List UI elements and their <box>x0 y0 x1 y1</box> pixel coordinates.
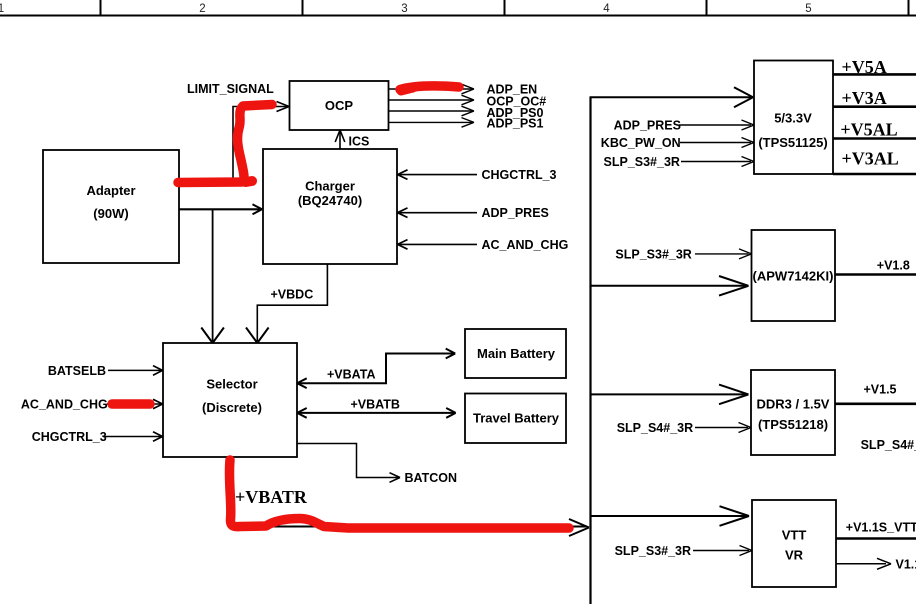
svg-text:+V5A: +V5A <box>842 57 887 77</box>
svg-text:+VBATA: +VBATA <box>327 368 376 382</box>
svg-text:VTT: VTT <box>782 528 807 543</box>
svg-text:ADP_PRES: ADP_PRES <box>482 206 549 220</box>
wire rail +V3AL <box>833 173 916 176</box>
ruler zone numbers <box>0 3 812 15</box>
svg-text:(BQ24740): (BQ24740) <box>298 193 362 208</box>
svg-text:Charger: Charger <box>305 179 355 194</box>
svg-text:+V1.8: +V1.8 <box>877 259 910 273</box>
svg-text:2: 2 <box>199 3 205 15</box>
arrow AC_AND_CHG <box>398 240 408 250</box>
arrow SLP_S4#_3R DDR3 <box>739 423 752 433</box>
arrow SLP_S3#_3R 5/3.3V <box>742 157 755 167</box>
svg-text:SLP_S4#_3R: SLP_S4#_3R <box>861 438 916 452</box>
svg-text:SLP_S3#_3R: SLP_S3#_3R <box>615 247 691 261</box>
arrow OCP_OC# <box>462 95 475 105</box>
wire +VBATA Selector to Main Battery <box>298 354 454 384</box>
svg-text:1: 1 <box>0 3 4 15</box>
svg-text:OCP: OCP <box>325 98 354 113</box>
svg-text:BATSELB: BATSELB <box>48 364 106 378</box>
wire +VBDC from Charger bottom <box>257 264 327 341</box>
red marker highlight ADP_EN <box>400 86 459 90</box>
wire LIMIT_SIGNAL from Adapter to OCP <box>179 107 287 183</box>
wire rail +V5AL <box>833 137 916 140</box>
svg-text:+VBDC: +VBDC <box>271 288 314 302</box>
svg-text:(Discrete): (Discrete) <box>202 400 262 415</box>
wire OCP output ADP_PS0 <box>389 110 474 112</box>
wire +VBATR Selector bottom to right bus <box>230 457 587 527</box>
wire rail +V1.1S_VTT <box>836 537 916 540</box>
arrow into Charger left <box>253 204 263 214</box>
wire Adapter to Charger <box>179 208 261 210</box>
wire BATCON from Selector <box>297 444 398 478</box>
arrow big into 5/3.3V <box>734 87 753 107</box>
arrow CHGCTRL_3 <box>398 170 408 180</box>
svg-text:LIMIT_SIGNAL: LIMIT_SIGNAL <box>187 82 274 96</box>
arrow ADP_PRES <box>398 208 408 218</box>
svg-text:Travel Battery: Travel Battery <box>473 411 560 426</box>
svg-text:ADP_PRES: ADP_PRES <box>614 119 681 133</box>
block Main Battery <box>465 329 566 378</box>
svg-text:+V3AL: +V3AL <box>842 149 899 169</box>
block OCP <box>290 81 389 130</box>
red marker highlight +VBATR <box>229 460 569 528</box>
svg-text:(90W): (90W) <box>93 206 128 221</box>
red marker blob on LIMIT bend <box>246 181 252 182</box>
wire bus branch to DDR3 <box>591 393 748 395</box>
arrow big into DDR3 <box>719 385 749 405</box>
border ruler line <box>0 15 916 17</box>
arrow +VBATR into bus <box>569 519 589 536</box>
wire SLP_S3#_3R into 5/3.3V <box>681 161 751 163</box>
svg-text:ICS: ICS <box>349 135 370 149</box>
arrow +VBATA into Main Battery <box>446 349 456 359</box>
arrow KBC_PW_ON <box>742 138 755 148</box>
svg-text:5: 5 <box>805 3 811 15</box>
block VTT VR <box>752 500 836 587</box>
wire ICS Charger to OCP <box>339 132 341 150</box>
wire ADP_PRES into Charger <box>399 212 477 214</box>
svg-text:SLP_S3#_3R: SLP_S3#_3R <box>615 544 691 558</box>
arrow BATCON <box>390 473 401 483</box>
arrow big into APW7142KI <box>719 276 749 296</box>
arrow big into VTT <box>720 506 750 526</box>
wire rail +V1.8 <box>835 273 916 276</box>
arrow into OCP left <box>277 102 290 112</box>
block Selector (Discrete) <box>163 343 297 457</box>
wire OCP output OCP_OC# <box>389 99 474 101</box>
wire OCP output ADP_PS1 <box>389 121 474 123</box>
svg-text:CHGCTRL_3: CHGCTRL_3 <box>482 168 557 182</box>
svg-text:AC_AND_CHG: AC_AND_CHG <box>482 238 569 252</box>
wire +VBATB Selector to Travel Battery <box>298 412 455 414</box>
svg-text:DDR3 / 1.5V: DDR3 / 1.5V <box>757 397 830 412</box>
svg-text:4: 4 <box>603 3 610 15</box>
arrow +VBATA into Selector <box>297 378 307 388</box>
wire bus branch to VTT <box>591 515 748 517</box>
arrow V1.1S <box>877 558 891 569</box>
wire OCP output ADP_EN <box>389 88 474 90</box>
arrow ADP_PS1 <box>462 118 475 128</box>
block Charger (BQ24740) <box>263 149 397 264</box>
arrow into OCP bottom <box>335 130 345 142</box>
svg-text:SLP_S3#_3R: SLP_S3#_3R <box>604 155 680 169</box>
svg-text:3: 3 <box>401 3 407 15</box>
wire rail +V5A <box>833 73 916 76</box>
arrow into Selector top left <box>201 328 224 344</box>
block Adapter (90W) <box>43 150 179 263</box>
svg-text:+VBATB: +VBATB <box>351 397 400 411</box>
svg-text:Selector: Selector <box>206 377 257 392</box>
arrow SLP_S3#_3R VTT <box>740 546 753 556</box>
block 5/3.3V (TPS51125) <box>754 61 833 175</box>
svg-text:BATCON: BATCON <box>405 471 458 485</box>
svg-text:SLP_S4#_3R: SLP_S4#_3R <box>617 421 693 435</box>
arrow ADP_PS0 <box>462 106 475 116</box>
wire BATSELB into Selector <box>108 369 162 371</box>
wire AC_AND_CHG into Charger <box>399 243 477 245</box>
svg-text:+V3A: +V3A <box>842 88 887 108</box>
svg-text:Main Battery: Main Battery <box>477 346 556 361</box>
wire right power bus vertical <box>589 97 591 604</box>
arrow AC_AND_CHG selector <box>153 399 163 409</box>
wire CHGCTRL_3 into Charger <box>398 174 477 176</box>
arrow CHGCTRL_3 selector <box>153 432 163 442</box>
svg-text:AC_AND_CHG: AC_AND_CHG <box>21 397 108 411</box>
wire junction down to Selector <box>212 210 214 342</box>
wire KBC_PW_ON into 5/3.3V <box>680 142 751 144</box>
arrow ADP_EN <box>462 84 475 94</box>
wire V1.1S output with arrow <box>836 563 886 565</box>
svg-text:+VBATR: +VBATR <box>235 487 308 507</box>
block DDR3 / 1.5V (TPS51218) <box>751 370 835 455</box>
svg-text:+V1.1S_VTT: +V1.1S_VTT <box>846 521 916 535</box>
ruler tick marks <box>101 0 909 16</box>
svg-text:V1.1S_VTT: V1.1S_VTT <box>896 557 916 571</box>
wire CHGCTRL_3 into Selector <box>103 436 161 438</box>
svg-text:ADP_PS1: ADP_PS1 <box>487 117 544 131</box>
svg-text:CHGCTRL_3: CHGCTRL_3 <box>32 430 107 444</box>
arrow +VBATB into Selector <box>297 408 307 418</box>
svg-text:5/3.3V: 5/3.3V <box>774 111 812 126</box>
svg-text:+V1.5: +V1.5 <box>864 382 897 396</box>
svg-text:KBC_PW_ON: KBC_PW_ON <box>601 136 681 150</box>
wire bus branch to APW7142KI <box>591 285 748 287</box>
arrow BATSELB <box>153 366 163 376</box>
red marker highlight AC_AND_CHG <box>112 399 150 409</box>
arrow SLP_S3#_3R APW <box>739 249 752 259</box>
red marker highlight LIMIT_SIGNAL <box>178 105 272 183</box>
svg-text:Adapter: Adapter <box>86 183 135 198</box>
wire SLP_S4#_3R into DDR3 <box>695 427 748 429</box>
wire bus branch to 5/3.3V <box>590 96 752 98</box>
wire rail +V1.5 <box>835 402 916 405</box>
svg-text:(TPS51125): (TPS51125) <box>758 135 827 150</box>
arrow +VBATB into Travel Battery <box>446 408 456 418</box>
wire SLP_S3#_3R into VTT <box>693 550 749 552</box>
block (APW7142KI) <box>752 230 836 321</box>
block Travel Battery <box>465 394 566 444</box>
wire ADP_PRES into 5/3.3V <box>679 124 751 126</box>
svg-text:(APW7142KI): (APW7142KI) <box>753 269 834 284</box>
wire rail +V3A <box>833 105 916 108</box>
wire SLP_S3#_3R into APW7142KI <box>695 253 749 255</box>
arrow ADP_PRES 5/3.3V <box>742 120 755 130</box>
svg-text:VR: VR <box>785 548 804 563</box>
arrow into Selector top right <box>246 328 269 344</box>
svg-text:(TPS51218): (TPS51218) <box>758 417 828 432</box>
svg-text:+V5AL: +V5AL <box>840 120 897 140</box>
wire AC_AND_CHG into Selector <box>107 403 161 405</box>
